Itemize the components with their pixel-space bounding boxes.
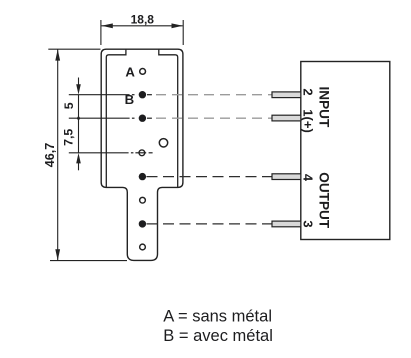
dimension 46,7 extension line top [48, 48, 100, 50]
housing outer contour [101, 49, 183, 260]
svg-text:7,5: 7,5 [62, 129, 76, 146]
svg-text:1(+): 1(+) [301, 109, 316, 132]
dimension 18,8 line [102, 25, 183, 27]
svg-text:B = avec métal: B = avec métal [163, 327, 273, 345]
svg-text:A = sans métal: A = sans métal [163, 308, 272, 326]
contact 3 (filled dot) [139, 220, 146, 227]
svg-text:A: A [125, 64, 135, 79]
dimension 18,8 extension line left [100, 20, 102, 45]
leader line row B [69, 94, 130, 96]
dimension 18,8 extension line right [182, 20, 184, 45]
large hole (open circle) [159, 139, 167, 147]
svg-text:OUTPUT: OUTPUT [317, 172, 332, 229]
pin 1(+) [272, 115, 301, 121]
svg-text:2: 2 [301, 88, 316, 95]
housing inner contour left [106, 50, 126, 188]
contact 4 (filled dot) [139, 173, 146, 180]
hole A (open circle) [140, 69, 146, 75]
wire 4 to pin 4 (dark dashed) [147, 176, 273, 178]
svg-text:4: 4 [301, 174, 316, 182]
wire B to pin 2 (grey dashed) [156, 94, 272, 96]
wire 3 to pin 3 (dark dashed) [147, 223, 273, 225]
contact 1(+) (filled dot) [139, 115, 146, 122]
small hole on axis (open circle) [139, 150, 145, 156]
leader line row 1(+) with axis dash-dot [69, 117, 130, 119]
svg-text:18,8: 18,8 [131, 13, 155, 27]
dimension 5 arrow (down) [76, 84, 81, 94]
housing inner contour right [159, 50, 178, 188]
svg-text:46,7: 46,7 [43, 143, 57, 168]
dimension 5 / 7,5 vertical line [78, 95, 80, 153]
svg-text:B: B [125, 92, 135, 107]
dimension 7,5 arrow (up) [76, 153, 81, 163]
dimension 7,5 arrow stem below [78, 157, 80, 171]
dimension 18,8 arrow left [102, 23, 113, 28]
dimension 46,7 arrow bottom [55, 249, 60, 260]
svg-text:5: 5 [62, 102, 76, 109]
dimension 18,8 arrow right [172, 23, 183, 28]
pin 3 [272, 221, 301, 227]
pin 4 [272, 174, 301, 180]
pin 2 [272, 92, 301, 98]
contact B (filled dot) [139, 91, 146, 98]
dimension 46,7 line [57, 49, 59, 260]
dimension 46,7 arrow top [55, 49, 60, 60]
dimension 46,7 extension line bottom [50, 260, 127, 262]
svg-text:INPUT: INPUT [317, 87, 332, 128]
svg-text:3: 3 [301, 220, 316, 227]
hole (open circle) [140, 244, 146, 250]
terminal block body [301, 62, 390, 240]
hole (open circle) [140, 197, 146, 203]
wire 1(+) to pin 1 (grey dashed) [156, 117, 272, 119]
dimension 5 arrow stem above [78, 78, 80, 92]
dimension junction point [77, 116, 81, 121]
leader line row 7,5 axis through small hole [69, 152, 129, 154]
